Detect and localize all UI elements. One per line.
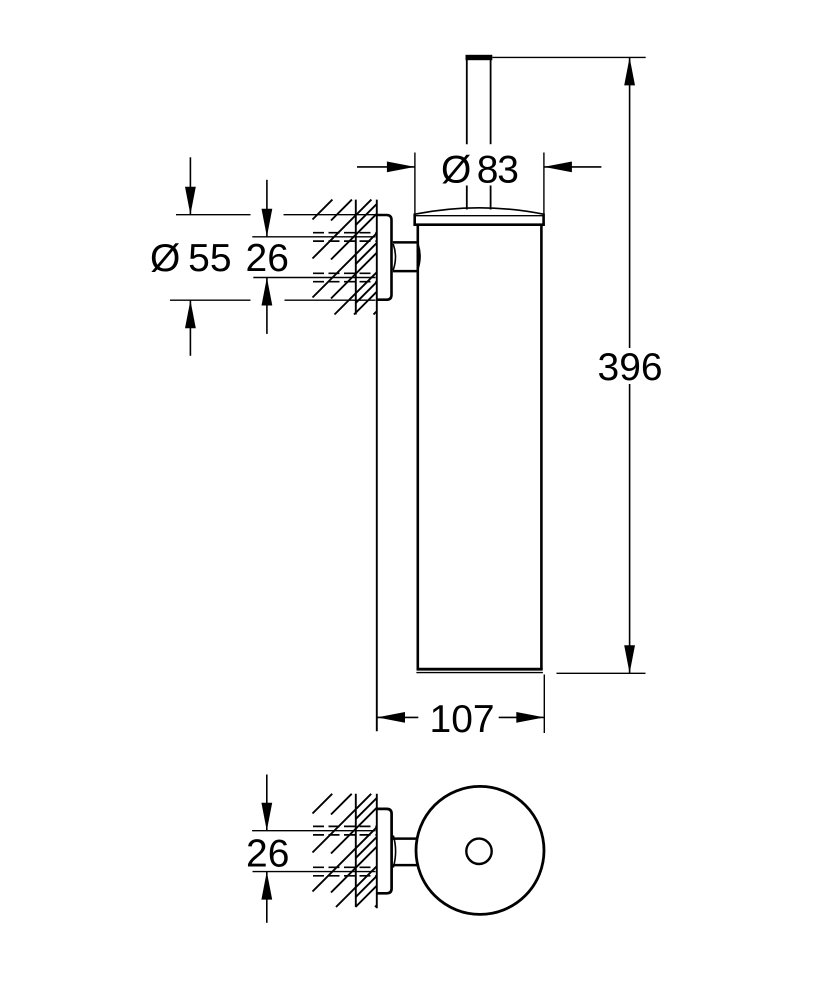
cylinder base rim line [416,672,543,674]
escutcheon dome arc (side view) [393,244,395,270]
dimension 396 top extension line [492,56,645,58]
hidden screw hole dashed lines lower (side view) [313,273,376,281]
wall hatching fine band (side view) [356,204,377,303]
hidden screw hole dashed lines upper (side view) [313,233,376,241]
lid upper edge line [415,215,544,217]
wall inner line (bottom view) [355,794,357,907]
svg-text:26: 26 [246,832,289,875]
hidden screw hole dashed lines lower (bottom view) [313,867,376,876]
svg-text:107: 107 [430,698,495,741]
wall plate escutcheon (bottom view) [377,809,392,893]
wall line (bottom view) [376,794,378,909]
brush handle stem right line [490,60,492,210]
dimension Ø55 bottom arrow [189,300,191,356]
svg-text:396: 396 [598,346,663,389]
dimension 107 right arrow [499,716,545,718]
mounting post (bottom view) [393,839,417,866]
svg-text:Ø 83: Ø 83 [441,149,518,192]
holder outline circle (bottom view) [416,786,544,914]
dimension Ø83 extension lines [415,153,544,214]
dimension 26 top arrow (bottom view) [266,775,268,831]
hidden screw hole dashed lines upper (bottom view) [313,826,376,835]
dimension 26 top arrow (side view) [266,180,268,237]
wall inner line (side view) [355,200,357,315]
lid top arc [415,208,544,214]
dimension 107 left arrow [377,716,418,718]
dimension Ø55 extension lines [170,215,376,301]
dimension 26 bottom arrow (bottom view) [266,872,268,923]
dimension 26 extension lines (side view) [252,237,375,278]
post-body junction arc (side view) [418,244,420,268]
wall plate escutcheon (side view) [377,215,392,300]
dimension 107 extension line right [543,675,545,734]
dimension Ø55 top arrow [189,157,191,214]
mounting post (side view) [393,242,418,271]
wall line (side view) [376,200,378,732]
brush handle stem left line [466,60,468,210]
dimension 396 line with arrows [629,57,631,348]
lid body (rim) [413,214,545,225]
dimension Ø83 right arrow [544,166,602,168]
svg-text:26: 26 [246,237,289,280]
cylinder bottom edge [417,668,543,671]
escutcheon dome arc (bottom view) [393,836,395,868]
dimension 26 bottom arrow (side view) [266,278,268,334]
brush handle cap [466,55,493,60]
dimension Ø83 left arrow [357,166,415,168]
wall hatching fine band (bottom view) [356,798,377,897]
dimension 26 extension lines (bottom view) [252,831,375,872]
dimension 396 bottom extension line [557,672,646,674]
wall hatching coarse (side view) [313,200,377,315]
cylinder body [418,225,542,670]
wall hatching coarse (bottom view) [313,794,377,907]
screw hole circle (bottom view) [466,839,491,864]
svg-text:Ø 55: Ø 55 [150,237,232,280]
